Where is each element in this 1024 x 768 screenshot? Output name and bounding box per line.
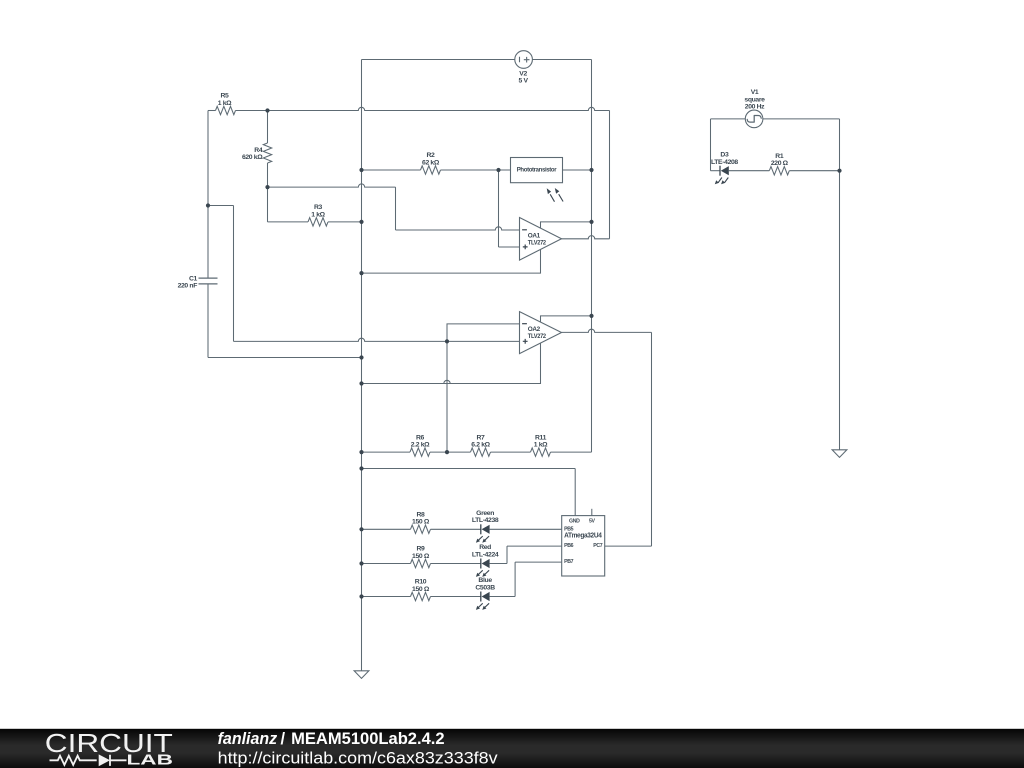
wire D3/R1 row [711,170,721,172]
svg-text:150 Ω: 150 Ω [412,519,430,526]
svg-text:R7: R7 [477,434,486,441]
svg-text:fanlianz: fanlianz [218,730,278,748]
resistor R4 [263,143,271,163]
svg-text:R1: R1 [775,153,784,160]
svg-text:150 Ω: 150 Ω [412,553,430,560]
svg-text:150 Ω: 150 Ω [412,586,430,593]
svg-text:62 kΩ: 62 kΩ [422,159,440,166]
junction R3 right on GND bus [359,220,363,224]
LED D3 (LTE-4208) [719,166,721,176]
svg-text:R3: R3 [314,204,323,211]
wire R6/R7/R11 row y=451.6 [362,451,411,453]
wire OA2 output to PC7 vertical [562,329,652,332]
node +5V rail vertical x=591 [591,60,593,453]
svg-text:C1: C1 [189,275,198,282]
op-amp OA1 plus glyph [523,245,528,250]
op-amp OA2 minus glyph [522,323,527,325]
wire R8 row y=528.8 [362,528,411,530]
svg-text:LTE-4208: LTE-4208 [711,159,738,166]
wire OA1 output [562,236,610,239]
op-amp OA2 [520,312,562,354]
resistor R1 [769,167,789,175]
svg-text:http://circuitlab.com/c6ax83z3: http://circuitlab.com/c6ax83z333f8v [218,750,499,768]
svg-text:PB6: PB6 [564,543,574,549]
wire R10 row y=596 [362,596,411,598]
junction R8 left on GND bus [359,527,363,531]
wire OA1 V- supply [362,249,541,273]
svg-text:PB7: PB7 [564,559,574,565]
wire OA2 minus input [447,324,520,452]
junction OA1 V- on GND bus [359,271,363,275]
capacitor C1 [199,278,218,284]
wire phototransistor emitter down to OA1 + [498,170,500,247]
junction R5 left / C1 top on left rail [206,203,210,207]
svg-text:1 kΩ: 1 kΩ [218,100,232,107]
svg-text:6.2 kΩ: 6.2 kΩ [471,442,490,449]
wire OA2 V- supply [362,343,541,383]
junction C1 bottom on GND bus [359,355,363,359]
svg-text:LTL-4224: LTL-4224 [472,551,499,558]
junction OA2 + and - leads [445,339,449,343]
svg-text:R10: R10 [415,579,427,586]
junction OA2 V+ on +5V rail [589,314,593,318]
op-amp OA2 plus glyph [523,339,528,344]
svg-text:TLV272: TLV272 [528,239,547,246]
resistor R8 [411,525,431,533]
resistor R11 [531,448,551,456]
wire OA1 minus feedback row y=186.6 [268,184,396,187]
wire x=233 down to OA2 + row [233,206,235,342]
svg-text:GND: GND [569,518,580,524]
svg-text:Phototransistor: Phototransistor [517,167,557,173]
wire rail jog y=205 [208,205,234,207]
junction R6/R7 with OA2 - input [445,450,449,454]
resistor R10 [411,592,431,600]
LED D (Green LTL-4238) [480,524,482,534]
junction R6 left on GND bus [359,450,363,454]
wire V2 right to +5V rail corner [532,59,591,61]
svg-text:LTL-4238: LTL-4238 [472,517,499,524]
footer bar [0,729,1024,768]
pin 5V stub [591,509,593,516]
svg-text:R11: R11 [535,434,547,441]
svg-text:220 Ω: 220 Ω [771,160,789,167]
resistor R7 [471,448,491,456]
svg-text:R4: R4 [254,147,263,154]
svg-text:620 kΩ: 620 kΩ [242,154,263,161]
junction phototransistor collector on +5V rail [589,168,593,172]
svg-text:R8: R8 [417,512,426,519]
junction OA2 V- on GND bus [359,381,363,385]
svg-text:D3: D3 [720,152,729,159]
svg-text:square: square [744,96,765,103]
wire OA2 V+ supply [541,316,592,322]
phototransistor light arrows [550,194,554,201]
wire V1 right rail down to ground [839,119,841,450]
wire PC7 to OA2 output [605,545,652,547]
node GND bus vertical x=361 [361,60,363,671]
svg-text:5V: 5V [589,518,596,524]
svg-text:MEAM5100Lab2.4.2: MEAM5100Lab2.4.2 [291,730,445,748]
svg-text:2.2 kΩ: 2.2 kΩ [411,442,430,449]
wire OA2 plus input row [234,338,520,341]
wire OA1 V+ supply [541,222,592,228]
junction R2 left on GND bus [359,168,363,172]
CircuitLab logo resistor zigzag [50,756,97,765]
svg-text:V1: V1 [751,89,759,96]
svg-text:Red: Red [479,544,491,551]
wire +5V top rail from V2 to left corner [362,59,515,61]
voltage source V2 [515,51,533,69]
phototransistor box [511,158,563,183]
wire C1 bottom to GND bus [207,284,209,358]
wire R9 row y=563 [362,563,411,565]
svg-text:/: / [281,730,286,748]
svg-text:1 kΩ: 1 kΩ [534,442,548,449]
svg-text:PC7: PC7 [593,543,603,549]
wire OA1 minus input row [396,227,520,230]
wire R4 top [267,111,269,144]
svg-text:R2: R2 [427,152,436,159]
junction R4 top / R5 right on OA1 output net [265,108,269,112]
svg-text:C503B: C503B [475,584,495,591]
svg-text:LAB: LAB [127,752,173,768]
junction R1 right on V1 return rail [837,169,841,173]
wire R4 bottom to R3 [267,163,269,222]
svg-text:Blue: Blue [478,577,492,584]
svg-text:PB5: PB5 [564,526,574,532]
svg-text:ATmega32U4: ATmega32U4 [564,533,602,540]
junction phototransistor emitter to OA1 + lead [496,168,500,172]
op-amp OA1 minus glyph [522,229,527,231]
wire x=395 down [395,187,397,230]
svg-text:V2: V2 [519,70,527,77]
op-amp OA1 [520,218,562,261]
junction OA1 V+ on +5V rail [589,220,593,224]
wire R2 row / phototransistor row y=169.5 [362,169,421,171]
voltage source V1 (square) [745,110,763,128]
svg-text:200 Hz: 200 Hz [745,104,765,111]
LED (Red LTL-4224) [480,559,482,569]
svg-text:1 kΩ: 1 kΩ [311,211,325,218]
resistor R6 [410,448,430,456]
wire V1 top row [711,118,746,120]
junction R10 left on GND bus [359,594,363,598]
IC U1 ATmega32U4 box [562,516,605,576]
LED (Blue C503B) [480,592,482,602]
svg-text:TLV272: TLV272 [528,333,547,340]
svg-text:R6: R6 [416,434,425,441]
svg-text:R9: R9 [417,546,426,553]
wire GND row to ATmega [362,468,576,470]
ground right circuit [832,450,847,458]
resistor R5 [216,106,236,114]
wire R3 row y=221.4 [268,221,309,223]
svg-text:220 nF: 220 nF [178,283,198,290]
junction R9 left on GND bus [359,561,363,565]
svg-text:Green: Green [476,510,494,517]
svg-text:5 V: 5 V [519,78,529,85]
wire left rail x=207.5 down to C1 [207,111,209,279]
svg-text:R5: R5 [221,93,230,100]
wire R5 row y=110 [208,110,216,112]
wire OA2 V- horizontal [362,380,541,383]
wire OA1 output feedback vertical x=609 [609,111,611,239]
ground main circuit [354,671,369,679]
wire V1 left down to D3 [710,119,712,171]
junction R4 bottom / R3 left / OA1 - net [265,185,269,189]
resistor R2 [421,166,441,174]
resistor R3 [308,218,328,226]
junction ATmega GND row on GND bus [359,466,363,470]
CircuitLab logo diode [99,754,110,766]
resistor R9 [411,559,431,567]
